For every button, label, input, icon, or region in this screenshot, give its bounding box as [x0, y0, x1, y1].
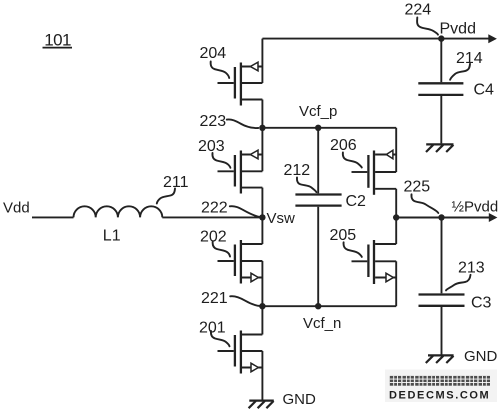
- svg-text:224: 224: [405, 1, 432, 18]
- svg-text:L1: L1: [103, 227, 121, 244]
- wire M205 tie down to Vcf_n: [395, 261, 397, 306]
- svg-text:Pvdd: Pvdd: [440, 21, 476, 38]
- leader line 201: [211, 331, 230, 346]
- node Vcf_n left junction dot: [259, 303, 265, 309]
- arrowhead Pvdd rail: [488, 34, 497, 43]
- svg-text:Vcf_n: Vcf_n: [303, 315, 341, 332]
- ground under transistor stack: [249, 401, 274, 409]
- capacitor C4: [418, 83, 463, 95]
- svg-text:101: 101: [44, 30, 71, 49]
- figure number 101: [43, 30, 73, 49]
- inductor L1: [74, 206, 163, 217]
- leader line 213: [446, 275, 471, 291]
- leader line 205: [344, 242, 362, 257]
- svg-text:223: 223: [200, 113, 227, 130]
- leader line 203: [212, 153, 230, 168]
- leader line 214: [450, 64, 470, 80]
- ground under C3: [426, 355, 454, 363]
- svg-text:GND: GND: [464, 348, 498, 365]
- svg-text:205: 205: [330, 227, 357, 244]
- svg-text:212: 212: [284, 162, 311, 179]
- wire L1 to Vsw: [162, 216, 262, 218]
- svg-text:GND: GND: [283, 391, 317, 408]
- svg-text:C4: C4: [474, 81, 495, 98]
- arrowhead half-Pvdd rail: [489, 213, 498, 222]
- svg-text:225: 225: [404, 179, 431, 196]
- wire C3 lower stub: [441, 307, 443, 355]
- svg-text:204: 204: [200, 45, 227, 62]
- wire M202 body/source tie down to Vcf_n: [261, 261, 263, 335]
- svg-text:213: 213: [458, 260, 485, 277]
- leader line 222: [230, 206, 259, 217]
- wire C4 lower stub: [440, 96, 442, 143]
- node dot C2 top junction: [315, 125, 321, 131]
- wire Vdd to L1: [32, 216, 74, 218]
- svg-text:Vcf_p: Vcf_p: [299, 103, 337, 120]
- svg-text:Vdd: Vdd: [3, 200, 30, 217]
- node 224 junction dot: [438, 35, 444, 41]
- node Vsw junction dot: [259, 214, 265, 220]
- svg-text:½Pvdd: ½Pvdd: [452, 198, 499, 215]
- leader line 212: [297, 177, 316, 192]
- ground under C4: [426, 144, 454, 152]
- leader line 223: [227, 119, 258, 128]
- leader line 225: [411, 194, 438, 213]
- transistor M205: [352, 240, 397, 284]
- node 223 junction dot: [259, 125, 265, 131]
- wire Vcf_p corner down to M206: [395, 128, 397, 172]
- transistor M201: [218, 331, 263, 374]
- wire M201 tie down to ground: [261, 351, 263, 401]
- capacitor C2 upper stub wire: [317, 128, 319, 194]
- transistor M204: [218, 62, 263, 105]
- svg-text:222: 222: [201, 200, 228, 217]
- wire M204 source to node 223 to M203: [261, 100, 263, 172]
- leader line 202: [213, 242, 230, 257]
- capacitor C3: [419, 295, 465, 306]
- node dot half-Pvdd left junction: [393, 214, 399, 220]
- leader line 206: [343, 153, 362, 168]
- leader line 211: [157, 189, 175, 204]
- svg-text:203: 203: [198, 138, 225, 155]
- wire node Vcf_p: [262, 127, 396, 129]
- svg-text:221: 221: [201, 290, 228, 307]
- transistor M203: [218, 150, 263, 193]
- wire C4 upper stub: [440, 39, 442, 83]
- wire C3 upper stub: [441, 218, 443, 294]
- capacitor C2: [295, 195, 341, 206]
- wire M206 source down through half-Pvdd node to M205 drain: [395, 189, 397, 244]
- transistor M202: [218, 240, 263, 284]
- svg-text:Vsw: Vsw: [267, 210, 296, 227]
- leader line 221: [230, 296, 261, 306]
- wire M203 source to Vsw to M202 drain: [261, 188, 263, 244]
- node 225 junction dot: [438, 214, 444, 220]
- wire node Vcf_n: [262, 305, 396, 307]
- transistor M206: [352, 150, 397, 195]
- wire Pvdd rail: [262, 38, 488, 40]
- svg-text:206: 206: [330, 137, 357, 154]
- leader line 224: [417, 18, 438, 35]
- wire main column top (Pvdd to M204 drain/body tie): [261, 39, 263, 83]
- wire half-Pvdd rail: [396, 217, 489, 219]
- leader line 204: [211, 62, 230, 79]
- svg-text:C2: C2: [346, 193, 367, 210]
- watermark: [385, 370, 497, 403]
- svg-text:DEDECMS.COM: DEDECMS.COM: [389, 390, 490, 402]
- capacitor C2 lower stub wire: [317, 207, 319, 306]
- node dot C2 bottom junction: [315, 303, 321, 309]
- svg-text:C3: C3: [471, 294, 492, 311]
- svg-text:201: 201: [199, 319, 226, 336]
